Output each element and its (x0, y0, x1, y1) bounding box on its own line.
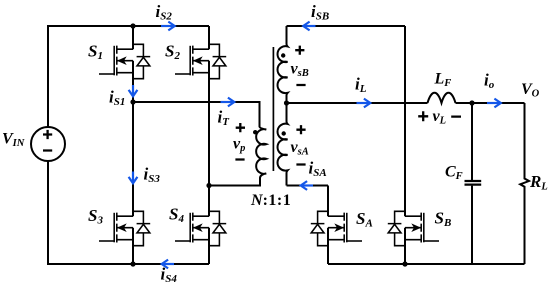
svg-text:SB: SB (435, 209, 452, 230)
primary polarity dot (253, 130, 257, 134)
current arrow iSB (303, 22, 315, 31)
wire: node A to primary winding (133, 102, 260, 127)
secondary vsA polarity dot (282, 131, 286, 135)
label vp with polarity (233, 123, 245, 160)
current arrow iT (221, 98, 235, 107)
transistor S1 (99, 26, 150, 102)
current arrow io (487, 99, 501, 108)
svg-text:iT: iT (218, 108, 231, 129)
transistor S3 (99, 102, 150, 264)
inductor LF (428, 93, 456, 103)
junction: node A - S1 source / S3 drain (130, 99, 135, 104)
wire: source to top rail (48, 26, 133, 127)
svg-text:iSA: iSA (309, 159, 327, 180)
secondary vsB polarity dot (281, 53, 285, 57)
transformer core (272, 47, 274, 171)
svg-text:iS4: iS4 (161, 265, 178, 286)
junction: node B - S2 source / S4 drain / primary bottom (206, 183, 211, 188)
label vsA with polarity (291, 125, 309, 164)
current arrow iSA (301, 181, 313, 190)
capacitor CF (465, 103, 482, 264)
wire: bottom rail S3 to S4 (133, 263, 209, 265)
wire: output row center tap to LF (287, 102, 428, 104)
junction: S1 drain at top rail (130, 23, 135, 28)
svg-text:VO: VO (521, 81, 540, 100)
svg-text:RL: RL (529, 172, 548, 193)
label vL with polarity (418, 108, 461, 127)
wire: output bottom rail (328, 263, 525, 265)
svg-text:iS2: iS2 (156, 2, 173, 23)
junction: S3 source at bottom rail (130, 261, 135, 266)
wire: vsA bottom to SA drain (287, 185, 329, 187)
svg-text:S3: S3 (88, 206, 103, 227)
current arrow iS3 (129, 172, 138, 184)
svg-text:VIN: VIN (2, 131, 25, 150)
wire: secondary top rail to SB (287, 25, 406, 27)
svg-text:iL: iL (355, 75, 367, 96)
svg-text:vsA: vsA (291, 139, 309, 158)
current arrow iS4 (162, 260, 174, 269)
svg-text:vsB: vsB (291, 61, 309, 80)
transformer T1 primary winding (256, 127, 266, 179)
current arrow iS1 (129, 85, 138, 96)
label vsB with polarity (291, 46, 309, 85)
transistor S2 (175, 26, 226, 186)
junction: LF CF node (469, 100, 474, 105)
transistor S4 (175, 186, 226, 265)
svg-text:iSB: iSB (311, 2, 329, 23)
transformer secondary winding vsB (278, 26, 288, 103)
junction: SB source at bottom rail (402, 261, 407, 266)
svg-text:CF: CF (445, 164, 463, 183)
transistor SB (388, 26, 439, 264)
svg-text:vL: vL (433, 108, 447, 127)
svg-text:iS3: iS3 (144, 165, 161, 186)
svg-text:io: io (484, 71, 495, 92)
svg-text:LF: LF (434, 71, 452, 90)
svg-text:S2: S2 (165, 42, 180, 63)
svg-text:iS1: iS1 (109, 88, 125, 109)
transistor SA (311, 186, 362, 265)
current arrow iS2 (161, 22, 175, 31)
svg-text:N:1:1: N:1:1 (250, 192, 291, 209)
wire: primary winding bottom to node B (209, 178, 260, 186)
junction: secondary center tap (284, 100, 289, 105)
wire: top rail S1 to S2 (133, 25, 209, 27)
svg-text:S1: S1 (88, 42, 103, 63)
svg-text:SA: SA (356, 209, 373, 230)
wire: source to bottom rail (48, 161, 133, 264)
svg-text:vp: vp (233, 136, 245, 155)
svg-text:S4: S4 (169, 205, 184, 226)
current arrow iL (357, 99, 371, 108)
transformer secondary winding vsA (278, 103, 288, 186)
wire: LF to output corner (456, 102, 525, 104)
voltage source VIN (31, 127, 65, 161)
resistor RL (520, 103, 529, 264)
